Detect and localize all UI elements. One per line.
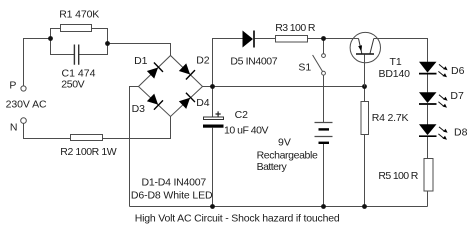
wire DC+ junction down to C2 top [212, 87, 214, 118]
wire R4 to rail [364, 135, 366, 207]
svg-text:T1: T1 [390, 56, 402, 68]
wire R1C1 output to bridge top corner [108, 44, 171, 56]
svg-text:S1: S1 [298, 61, 311, 73]
svg-text:10 uF 40V: 10 uF 40V [224, 125, 269, 137]
terminal P [21, 86, 26, 91]
LED D8 [419, 124, 448, 140]
svg-text:D4: D4 [196, 97, 210, 109]
wire S1 bottom lead to battery [323, 75, 325, 123]
resistor R1 [61, 25, 92, 32]
diode D1 [146, 63, 163, 80]
wire mid rail to base junction [213, 86, 365, 88]
wire bridge right corner to DC+ junction [203, 86, 213, 88]
svg-text:High Volt AC Circuit - Shock h: High Volt AC Circuit - Shock hazard if t… [135, 213, 340, 225]
svg-text:C1 474: C1 474 [62, 67, 96, 79]
wire bottom ground rail [130, 206, 428, 208]
capacitor C1 [74, 45, 78, 65]
svg-text:R2 100R 1W: R2 100R 1W [60, 146, 116, 158]
wire N branch [24, 123, 71, 138]
battery B1 9V [315, 123, 333, 145]
svg-text:R3 100 R: R3 100 R [275, 22, 316, 34]
svg-text:D7: D7 [450, 90, 464, 102]
resistor R2 [71, 135, 103, 141]
svg-text:D5 IN4007: D5 IN4007 [230, 55, 277, 67]
node dot C2 on rail [210, 204, 215, 209]
svg-text:D6-D8 White LED: D6-D8 White LED [131, 189, 213, 201]
svg-text:250V: 250V [61, 79, 84, 91]
svg-text:Rechargeable: Rechargeable [257, 150, 318, 162]
LED D6 [419, 62, 448, 78]
resistor R4 [361, 102, 369, 135]
node dot R4 on rail [362, 204, 367, 209]
wire LED D8 to R5 [427, 137, 429, 159]
node dot R1C1 left [48, 36, 53, 41]
node dot R3/S1 [321, 36, 326, 41]
node dot battery on rail [321, 204, 326, 209]
LED D7 [419, 92, 448, 108]
wire bridge left corner to bottom rail [130, 87, 139, 207]
svg-text:Battery: Battery [257, 161, 288, 173]
wire DC+ vertical up to D5 branch corner [213, 39, 243, 87]
wire D5 to R3 [255, 38, 276, 40]
svg-text:C2: C2 [235, 109, 249, 121]
svg-text:R4 2.7K: R4 2.7K [372, 112, 409, 124]
svg-text:D1: D1 [134, 55, 148, 67]
wire C1 bottom branch leads [50, 54, 108, 56]
terminal N [21, 118, 27, 124]
resistor R3 [276, 36, 308, 43]
wire P branch [24, 39, 51, 87]
svg-text:D6: D6 [451, 65, 465, 77]
svg-text:9V: 9V [278, 137, 291, 149]
wire bridge diamond arms [139, 56, 203, 117]
resistor R5 [424, 159, 433, 192]
wire S1 top lead [323, 39, 325, 54]
diode D2 [178, 63, 195, 80]
diode D4 [178, 93, 195, 110]
node dot bridge DC+ junction [210, 84, 215, 89]
wire R1/C1 loop left vertical [50, 28, 52, 55]
wire battery minus to rail [323, 144, 325, 207]
transistor T1 [350, 32, 381, 86]
wire R5 to rail [427, 191, 429, 207]
wire LED D6-D7 [427, 74, 429, 92]
node dot base/R4 junction [362, 84, 367, 89]
wire R2 to bridge bottom corner [103, 117, 171, 139]
wire LED D7-D8 [427, 105, 429, 125]
svg-text:D3: D3 [132, 103, 146, 115]
diode D5 [243, 31, 255, 48]
svg-text:D8: D8 [454, 126, 468, 138]
switch S1 [313, 54, 326, 75]
svg-text:N: N [10, 121, 18, 133]
svg-text:R1 470K: R1 470K [59, 8, 99, 20]
capacitor C2 [203, 111, 224, 127]
svg-text:R5 100 R: R5 100 R [378, 170, 418, 182]
wire transistor collector to LED chain [374, 39, 428, 63]
svg-text:230V AC: 230V AC [6, 98, 47, 110]
svg-text:D2: D2 [196, 55, 210, 67]
node dot R1C1 right [105, 41, 110, 46]
svg-text:P: P [9, 80, 16, 92]
diode D3 [146, 93, 163, 110]
wire R1/C1 loop right vertical [107, 28, 109, 55]
wire R1 top branch leads [50, 28, 108, 30]
svg-text:D1-D4 IN4007: D1-D4 IN4007 [142, 177, 207, 189]
wire base junction to R4 [364, 87, 366, 102]
wire C2 bottom to rail [212, 128, 214, 207]
wire R3 to transistor emitter [308, 38, 359, 40]
svg-text:BD140: BD140 [379, 68, 411, 80]
